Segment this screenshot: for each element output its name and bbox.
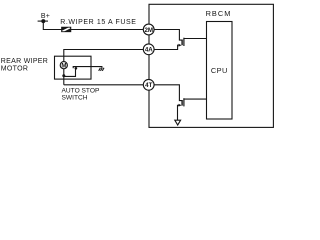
- wire Q2 source to ground: [178, 105, 179, 120]
- svg-text:2M: 2M: [144, 27, 153, 34]
- wire 2M to Q1 drain: [154, 30, 182, 41]
- ground chassis hatches: [99, 68, 104, 71]
- svg-text:M: M: [61, 63, 66, 70]
- svg-text:CPU: CPU: [211, 66, 228, 75]
- svg-text:4T: 4T: [145, 82, 152, 89]
- box rear wiper motor: [55, 56, 92, 79]
- transistor Q1 source arrow: [179, 44, 182, 47]
- fuse R.WIPER 15 A FUSE: [62, 27, 71, 32]
- node B+ terminal bar: [38, 20, 48, 22]
- box RBCM: [149, 4, 273, 127]
- svg-text:B+: B+: [41, 13, 50, 20]
- wire B+ drop to fuse feed: [43, 21, 143, 29]
- transistor Q2 source arrow: [179, 104, 182, 107]
- svg-text:R.WIPER 15 A FUSE: R.WIPER 15 A FUSE: [60, 19, 136, 26]
- wire auto stop switch common: [64, 69, 76, 76]
- transistor Q2 (MOSFET, bottom): [182, 98, 206, 106]
- transistor Q1 (MOSFET, top): [182, 38, 206, 46]
- svg-text:4A: 4A: [145, 47, 153, 54]
- svg-text:RBCM: RBCM: [206, 9, 232, 18]
- svg-text:SWITCH: SWITCH: [62, 94, 88, 101]
- svg-text:MOTOR: MOTOR: [1, 66, 28, 73]
- svg-text:REAR WIPER: REAR WIPER: [1, 58, 48, 65]
- wire 4T to Q2 drain: [154, 85, 182, 101]
- wire 4T bus: [64, 84, 144, 86]
- connector pin 4T: [143, 79, 154, 90]
- connector pin 2M: [143, 24, 154, 35]
- switch contact dot: [75, 67, 78, 70]
- wire 4A to motor: [64, 50, 144, 62]
- ground triangle: [175, 120, 181, 125]
- box CPU: [207, 22, 233, 120]
- motor M: [60, 62, 67, 69]
- node junction: [62, 74, 65, 77]
- wire switch output: [73, 67, 102, 69]
- node B+ dot: [41, 19, 45, 23]
- wire 4A to Q1 source: [154, 45, 178, 49]
- connector pin 4A: [143, 44, 154, 55]
- wire motor to 4T: [63, 69, 65, 85]
